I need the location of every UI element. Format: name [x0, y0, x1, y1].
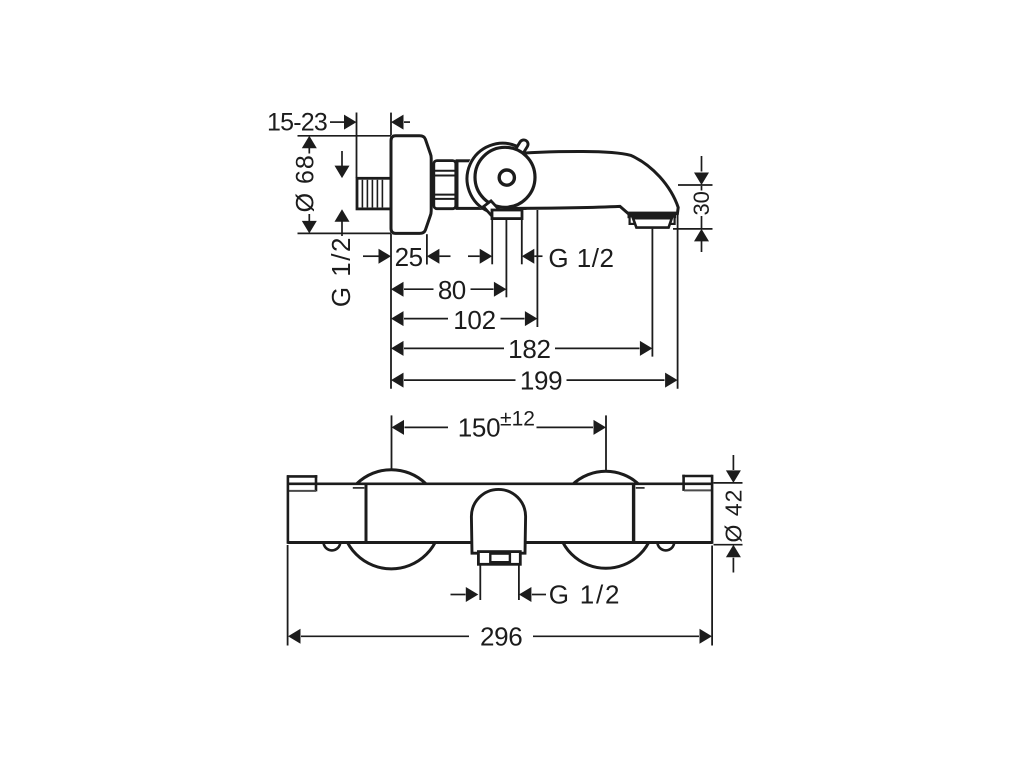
svg-text:G 1/2: G 1/2 [549, 580, 622, 610]
arrowheads top [302, 115, 709, 388]
svg-text:15-23: 15-23 [267, 108, 327, 136]
svg-text:25: 25 [395, 242, 423, 272]
svg-text:±12: ±12 [500, 408, 535, 431]
extension lines horizontal [298, 135, 392, 137]
center dome (spout toward viewer) [471, 489, 525, 553]
svg-text:30: 30 [689, 191, 714, 215]
body rect between nut and knob [457, 161, 525, 209]
bracket plate [492, 210, 522, 219]
svg-text:102: 102 [453, 305, 495, 335]
G1/2 bottom [451, 594, 466, 596]
dim 182 [404, 347, 504, 349]
escutcheon [391, 136, 431, 234]
dim 25 + G1/2 line at y 256.2 [363, 255, 379, 257]
bumps below bar [324, 534, 341, 551]
nipple G1/2 shafts [341, 151, 343, 166]
nut [434, 161, 456, 209]
svg-text:G 1/2: G 1/2 [326, 236, 356, 307]
svg-text:80: 80 [438, 275, 466, 305]
dim 80 [404, 288, 434, 290]
svg-text:182: 182 [508, 334, 550, 364]
dim 102 [404, 318, 448, 320]
escutcheon circles behind bar [342, 470, 441, 569]
dim O42 shafts [732, 455, 734, 470]
left cap [287, 475, 317, 478]
junction lines on bar [365, 484, 368, 543]
extension lines vertical [356, 113, 358, 178]
dim 15-23 leader [330, 121, 345, 123]
svg-text:Ø 42: Ø 42 [721, 489, 747, 543]
svg-text:199: 199 [520, 366, 562, 396]
aerator [633, 218, 672, 227]
right cap [682, 475, 712, 478]
dim 199 [404, 379, 516, 381]
spout silhouette [505, 151, 678, 213]
svg-text:Ø 68: Ø 68 [291, 154, 319, 212]
bar fill [288, 484, 713, 543]
lever tab [509, 138, 530, 164]
dim 150 [405, 426, 449, 428]
bracket neck below knob [483, 201, 500, 217]
threaded nipple (hatched) [357, 178, 391, 209]
knob [475, 147, 535, 207]
spout tip dark band [628, 212, 677, 219]
dim O68 shafts [308, 148, 310, 154]
svg-text:296: 296 [480, 622, 522, 652]
svg-text:G 1/2: G 1/2 [548, 243, 614, 273]
tailpiece lines [479, 564, 481, 600]
dim 296 [301, 635, 469, 637]
bar outline [288, 482, 713, 485]
pipe between escutcheon and nut [429, 168, 436, 205]
aerator corner notches [630, 216, 636, 224]
svg-text:150: 150 [458, 413, 500, 443]
dim 30 shafts [701, 156, 703, 172]
ring behind knob (white-out + visible arc) [465, 142, 539, 216]
collar under dome [478, 552, 520, 565]
